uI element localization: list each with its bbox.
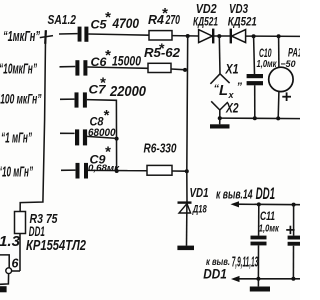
svg-text:X2: X2 — [225, 100, 238, 116]
svg-text:*: * — [159, 40, 165, 56]
svg-text:DD1: DD1 — [256, 185, 276, 203]
svg-text:270: 270 — [165, 12, 181, 27]
svg-text:“10мкГн”: “10мкГн” — [0, 61, 37, 78]
svg-text:15000: 15000 — [112, 53, 141, 69]
svg-text:”: ” — [237, 81, 243, 93]
svg-text:4700: 4700 — [112, 15, 140, 31]
svg-text:“10 мГн”: “10 мГн” — [0, 164, 33, 181]
svg-text:КР1554ТЛ2: КР1554ТЛ2 — [26, 237, 86, 254]
svg-text:6: 6 — [12, 257, 20, 271]
svg-text:“100 мкГн”: “100 мкГн” — [0, 91, 42, 107]
svg-text:“1мкГн”: “1мкГн” — [3, 28, 40, 45]
svg-text:7,9,11,13: 7,9,11,13 — [232, 254, 259, 271]
svg-text:1,0мк: 1,0мк — [257, 59, 278, 70]
svg-text:DD1: DD1 — [203, 266, 227, 282]
svg-text:x: x — [228, 90, 235, 100]
svg-text:VD1: VD1 — [190, 185, 209, 200]
svg-text:к выв.14: к выв.14 — [216, 188, 253, 202]
svg-text:0,68мк: 0,68мк — [88, 163, 120, 174]
svg-text:SA1.2: SA1.2 — [48, 12, 77, 27]
svg-text:1.3: 1.3 — [0, 233, 21, 250]
svg-text:Д18: Д18 — [192, 204, 207, 216]
svg-text:−50: −50 — [281, 59, 297, 70]
svg-text:X1: X1 — [225, 61, 239, 77]
svg-text:C10: C10 — [259, 46, 272, 60]
svg-text:“1 мГн”: “1 мГн” — [1, 130, 32, 147]
svg-text:РА1: РА1 — [288, 46, 300, 60]
svg-text:1,0мк: 1,0мк — [259, 224, 280, 235]
svg-text:L: L — [219, 82, 228, 99]
svg-text:C11: C11 — [260, 209, 275, 223]
svg-text:68000: 68000 — [88, 127, 116, 139]
svg-text:22000: 22000 — [109, 83, 146, 100]
svg-text:КД521: КД521 — [193, 15, 218, 29]
svg-text:R6-330: R6-330 — [144, 141, 178, 156]
svg-text:КД521: КД521 — [228, 15, 257, 29]
